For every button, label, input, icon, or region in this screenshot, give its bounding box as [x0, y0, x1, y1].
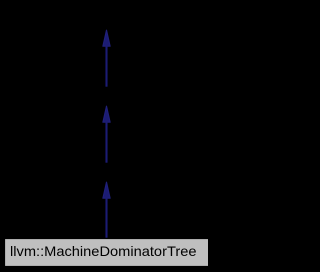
inheritance arrow 1 (topmost, pointing up to hidden base class)	[103, 30, 110, 86]
inheritance arrow 3 (bottom, from node box pointing up)	[103, 182, 110, 239]
svg-text:llvm::MachineDominatorTree: llvm::MachineDominatorTree	[10, 243, 197, 259]
node box llvm::MachineDominatorTree (current class, grey fill)	[4, 238, 208, 266]
inheritance arrow 2 (middle, pointing up)	[103, 106, 110, 163]
